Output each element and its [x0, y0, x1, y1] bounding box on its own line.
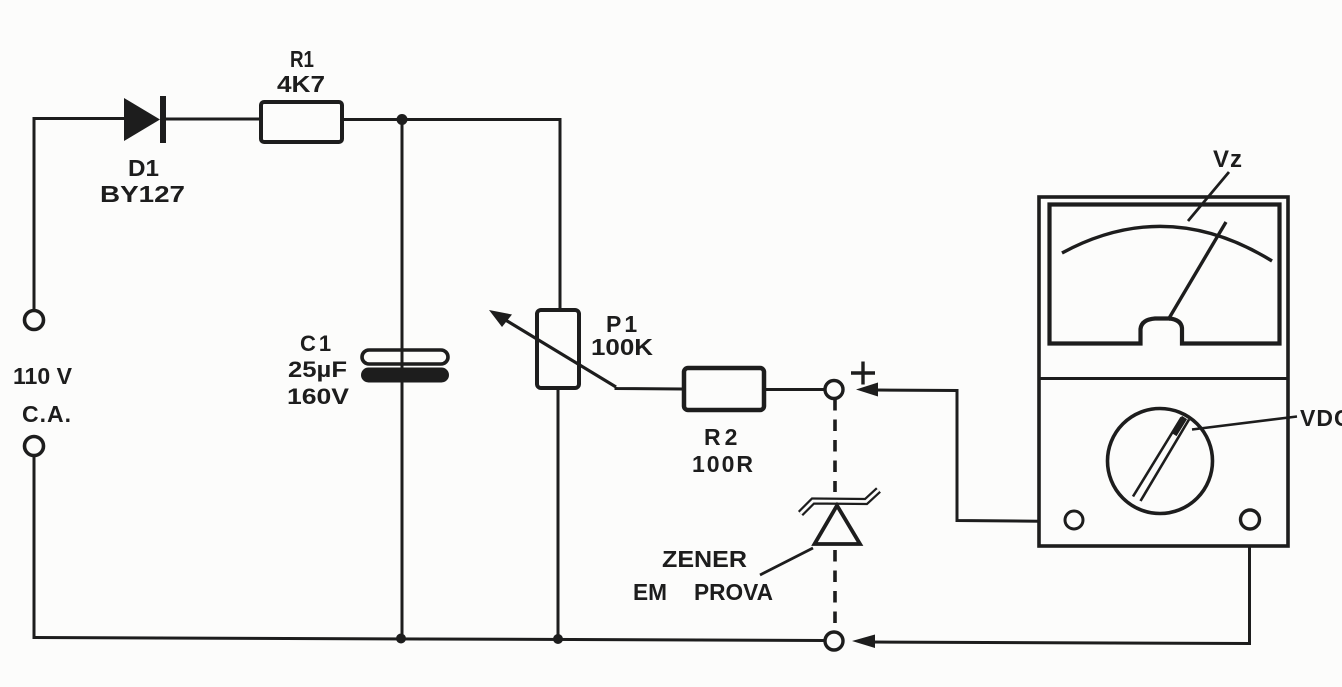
wire: R1 to top-right corner, down to P1 [342, 120, 560, 312]
capacitor C1 top plate [362, 350, 448, 364]
arrow: into bottom node from meter wire [852, 635, 875, 649]
meter range dial circle [1108, 409, 1213, 514]
resistor R1 [261, 102, 342, 142]
node: bottom output terminal circle [825, 632, 843, 650]
wire: wiper to R2 [616, 387, 683, 389]
svg-text:D1: D1 [128, 155, 159, 181]
leader line: label to zener [760, 548, 813, 575]
arrow: into + node from meter wire [856, 383, 878, 397]
svg-text:R1: R1 [290, 46, 314, 72]
wire: top rail, terminal branch to diode [33, 117, 126, 120]
leader line: VDC to dial [1192, 417, 1297, 430]
meter needle [1168, 222, 1226, 320]
svg-text:160V: 160V [287, 384, 349, 409]
svg-text:VDC: VDC [1300, 405, 1342, 431]
zener diode cathode bar (bent band) [801, 490, 879, 514]
svg-text:C1: C1 [300, 331, 334, 356]
wire: R2 to + node [764, 388, 825, 391]
wire: C1 bottom lead to bottom rail [401, 383, 404, 640]
node: bottom junction dot under P1 [553, 634, 563, 644]
terminal: 110V top [25, 311, 44, 330]
label EM PROVA [633, 579, 773, 605]
svg-text:Vz: Vz [1213, 146, 1243, 173]
dial pointer mark [1174, 418, 1185, 435]
wire: P1 bottom lead to bottom rail [557, 388, 560, 639]
svg-text:110 V: 110 V [13, 363, 73, 389]
svg-text:C.A.: C.A. [22, 401, 72, 427]
svg-text:ZENER: ZENER [662, 546, 747, 572]
wire: dashed net zener anode to bottom node [833, 550, 837, 631]
terminal: 110V bottom [25, 437, 44, 456]
potentiometer P1 body [537, 310, 579, 388]
node: top junction dot [397, 114, 408, 125]
node: bottom junction dot under C1 [396, 634, 406, 644]
terminal: meter left jack [1065, 511, 1083, 529]
meter divider line [1040, 377, 1288, 380]
svg-text:R2: R2 [704, 424, 741, 450]
capacitor C1 bottom plate [361, 368, 449, 383]
node: + output terminal circle [825, 381, 843, 399]
svg-text:BY127: BY127 [100, 181, 185, 207]
svg-text:EM: EM [633, 579, 667, 605]
meter body outline [1039, 197, 1288, 546]
meter scale arc [1062, 226, 1272, 261]
wire: AC return lead down to bottom rail [33, 456, 36, 640]
wire: meter right terminal down and left to bottom node [871, 529, 1250, 644]
dial pointer slot [1133, 418, 1189, 502]
wire: bottom rail [34, 638, 824, 641]
terminal: meter right jack [1241, 510, 1260, 529]
label + sign [851, 362, 875, 385]
svg-text:25µF: 25µF [288, 357, 347, 382]
svg-text:PROVA: PROVA [694, 579, 773, 605]
svg-text:4K7: 4K7 [277, 71, 325, 97]
wire: AC hot lead from top terminal up to top rail [33, 119, 36, 311]
wire: C1 branch from top rail down to capacitor [401, 120, 404, 369]
potentiometer P1 wiper arrow [489, 310, 616, 387]
wire: diode to R1 [166, 118, 260, 121]
resistor R2 [684, 368, 764, 410]
zener diode triangle (anode) [815, 506, 861, 545]
meter display window with pivot notch [1050, 205, 1280, 344]
svg-text:100R: 100R [692, 451, 755, 477]
diode D1 [124, 96, 163, 143]
wire: + node to meter left terminal [876, 390, 1064, 522]
leader line: Vz to display [1188, 172, 1229, 221]
wire: dashed net + node to zener cathode [833, 399, 837, 492]
svg-text:100K: 100K [591, 334, 653, 360]
